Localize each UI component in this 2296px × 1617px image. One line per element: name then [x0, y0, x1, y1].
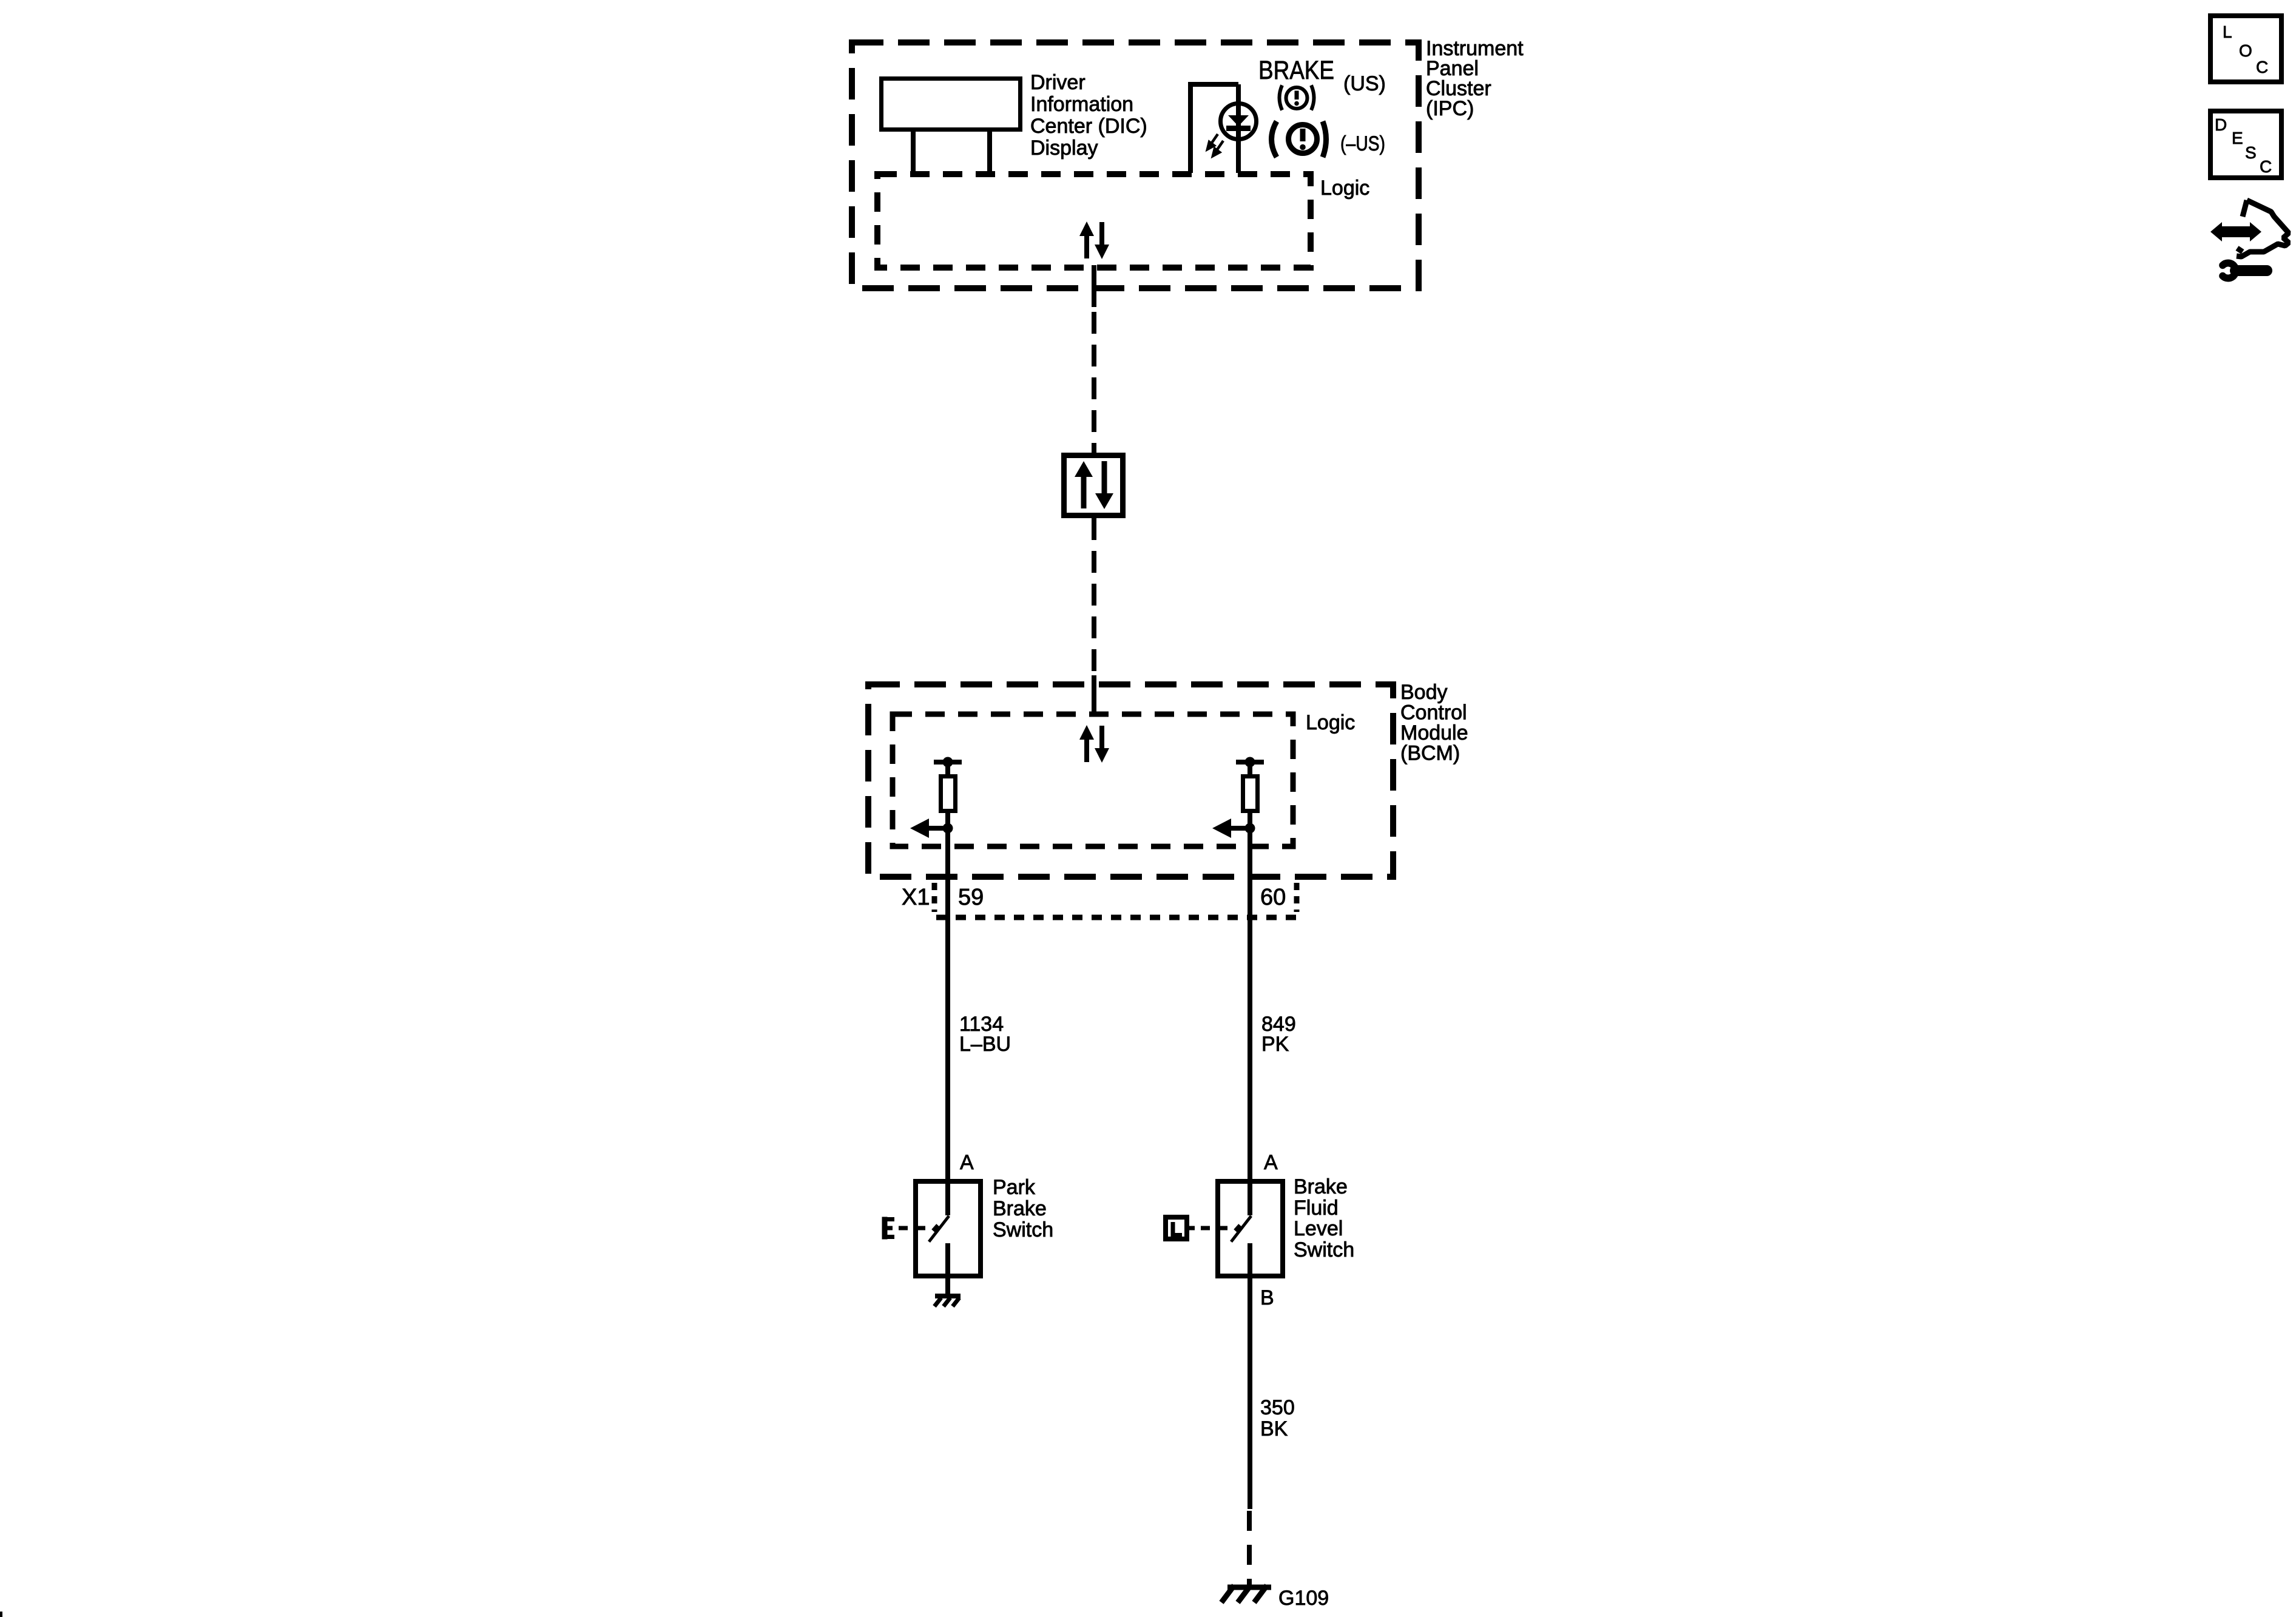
svg-text:Switch: Switch — [993, 1218, 1053, 1241]
actuator dashed link (park brake) — [899, 1226, 925, 1230]
svg-text:Brake: Brake — [1294, 1175, 1348, 1198]
wire DIC leg right — [987, 130, 992, 175]
svg-text:G109: G109 — [1278, 1587, 1329, 1610]
ground G109 — [1221, 1585, 1271, 1602]
icon data link double arrow — [2210, 222, 2261, 241]
svg-text:S: S — [2245, 143, 2257, 162]
svg-text:(–US): (–US) — [1340, 132, 1385, 155]
wire LED feed — [1190, 84, 1238, 173]
serial data arrows (IPC logic) — [1079, 221, 1109, 259]
svg-text:Information: Information — [1030, 93, 1133, 116]
svg-text:O: O — [2239, 41, 2252, 60]
svg-text:C: C — [2256, 58, 2268, 76]
junction and sense arrow (pin 59) — [910, 819, 953, 838]
svg-text:Logic: Logic — [1320, 177, 1369, 200]
connector X1 body line — [936, 915, 1299, 920]
wire label 350 BK — [1260, 1396, 1295, 1440]
wire DIC leg left — [911, 130, 916, 175]
module Instrument Panel Cluster (IPC) boundary — [852, 42, 1419, 288]
svg-text:B: B — [1260, 1286, 1274, 1309]
svg-text:A: A — [960, 1151, 974, 1174]
wire 350 BK — [1248, 1276, 1252, 1509]
module Body Control Module (BCM) boundary — [868, 684, 1393, 877]
icon DESC — [2210, 111, 2281, 178]
svg-text:BK: BK — [1260, 1417, 1288, 1440]
BCM logic block boundary — [893, 714, 1293, 846]
icon LOC — [2210, 16, 2281, 82]
svg-text:Driver: Driver — [1030, 71, 1086, 94]
svg-text:Level: Level — [1294, 1217, 1343, 1240]
label Body Control Module (BCM) — [1400, 681, 1468, 765]
svg-text:Logic: Logic — [1306, 711, 1355, 734]
svg-text:Center (DIC): Center (DIC) — [1030, 115, 1147, 138]
svg-text:Park: Park — [993, 1176, 1036, 1199]
label Instrument Panel Cluster (IPC) — [1426, 37, 1524, 120]
resistor R1 (pull-up, pin 59) — [934, 757, 962, 829]
light emission arrows — [1207, 134, 1223, 156]
svg-text:E: E — [2232, 129, 2243, 147]
svg-text:59: 59 — [958, 885, 984, 910]
svg-text:60: 60 — [1260, 885, 1286, 910]
svg-text:(US): (US) — [1343, 72, 1386, 95]
svg-text:Switch: Switch — [1294, 1238, 1354, 1261]
svg-text:Body: Body — [1400, 681, 1448, 704]
svg-text:X1: X1 — [902, 885, 930, 910]
svg-text:L: L — [2223, 22, 2232, 41]
wire BCM pin 59 to park brake switch — [945, 828, 950, 1215]
svg-text:A: A — [1264, 1151, 1278, 1174]
svg-text:350: 350 — [1260, 1396, 1295, 1419]
brake warning symbol small (US) — [1280, 86, 1314, 110]
wire label 1134 L-BU — [959, 1013, 1011, 1056]
resistor R2 (pull-up, pin 60) — [1236, 757, 1264, 829]
svg-text:L–BU: L–BU — [959, 1033, 1011, 1056]
wire BCM pin 60 to brake fluid level switch — [1248, 828, 1252, 1215]
page corner mark — [0, 1612, 2, 1617]
svg-text:C: C — [2260, 157, 2272, 176]
svg-text:Control: Control — [1400, 701, 1467, 724]
svg-text:D: D — [2215, 115, 2227, 134]
junction and sense arrow (pin 60) — [1212, 819, 1255, 838]
IPC logic block boundary — [877, 174, 1311, 268]
icon component outline — [2237, 200, 2289, 257]
svg-text:Display: Display — [1030, 137, 1098, 160]
icon wrench — [2223, 263, 2267, 278]
connector X1 ticks — [934, 883, 1297, 912]
brake fluid level switch S2 — [1218, 1181, 1283, 1276]
wire to ground G109 — [1247, 1511, 1252, 1585]
actuator symbol E (park brake pedal) — [883, 1217, 894, 1240]
wire label 849 PK — [1261, 1013, 1296, 1056]
indicator LED lamp — [1221, 84, 1257, 173]
label Brake Fluid Level Switch — [1294, 1175, 1354, 1261]
serial data arrows (BCM logic) — [1079, 725, 1109, 763]
svg-text:Fluid: Fluid — [1294, 1197, 1339, 1220]
svg-text:Brake: Brake — [993, 1197, 1047, 1220]
svg-text:(IPC): (IPC) — [1426, 97, 1474, 120]
label Park Brake Switch — [993, 1176, 1053, 1241]
wire IPC to serial data link — [1092, 265, 1096, 307]
serial data link symbol — [1064, 456, 1123, 516]
park brake switch S1 — [916, 1181, 981, 1276]
actuator dashed link (fluid level) — [1201, 1226, 1227, 1230]
level sensor symbol L — [1166, 1217, 1195, 1239]
svg-text:Module: Module — [1400, 721, 1468, 744]
ground at park brake switch — [934, 1276, 961, 1306]
brake warning symbol large (non-US) — [1272, 121, 1326, 157]
DIC display box — [882, 79, 1021, 130]
label Driver Information Center (DIC) Display — [1030, 71, 1147, 160]
wire serial data link to BCM — [1092, 518, 1096, 675]
svg-text:PK: PK — [1261, 1033, 1289, 1056]
svg-text:BRAKE: BRAKE — [1258, 56, 1334, 85]
svg-text:(BCM): (BCM) — [1400, 742, 1460, 765]
